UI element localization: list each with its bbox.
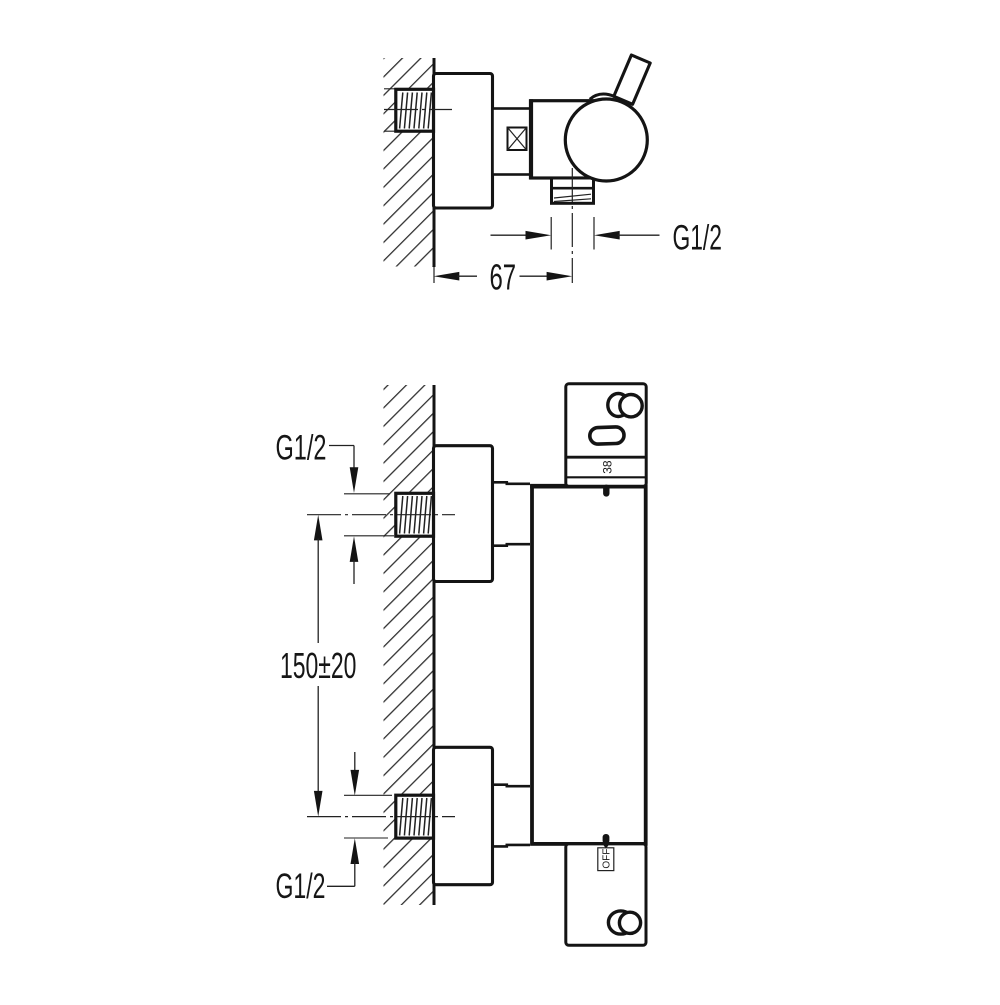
svg-text:G1/2: G1/2 <box>276 867 326 906</box>
temperature knob grip pill <box>590 427 625 445</box>
svg-text:G1/2: G1/2 <box>673 219 722 258</box>
volume index pin <box>603 834 610 849</box>
wall hatching (bottom view) <box>384 385 434 905</box>
volume knob grip circles <box>608 911 633 934</box>
knob band lines with 38 stop <box>566 456 646 459</box>
wall face line (top view) <box>433 58 436 267</box>
lower threaded wall inlet <box>396 795 434 838</box>
volume knob (bottom of bar) <box>566 844 646 945</box>
wall hatching (top view) <box>384 58 434 267</box>
inlet thread extension stubs <box>384 88 397 90</box>
threaded wall inlet (top view) <box>396 89 434 131</box>
dimension G1/2 (upper inlet) <box>276 429 395 584</box>
upper mounting escutcheon <box>434 446 493 582</box>
svg-text:G1/2: G1/2 <box>276 429 327 468</box>
temperature index pin <box>603 485 609 497</box>
shower outlet nipple (top view) <box>552 178 594 203</box>
wall face line (bottom view) <box>433 385 436 905</box>
lower inlet centre line <box>307 816 455 818</box>
dimension G1/2 (lower inlet) <box>276 752 393 906</box>
upper threaded wall inlet <box>396 493 434 536</box>
wall-mount escutcheon block (top view) <box>434 74 493 209</box>
temperature knob (top of bar) <box>566 384 646 486</box>
OFF label box (rotated text) <box>598 848 614 871</box>
connector neck between escutcheon and valve body <box>493 109 532 175</box>
upper connector between escutcheon and body <box>493 482 531 545</box>
inlet centre line (top view) <box>384 109 452 111</box>
lower connector between escutcheon and body <box>493 785 531 847</box>
svg-text:38: 38 <box>600 460 614 474</box>
wall face thin extension to 67-dim <box>433 267 435 283</box>
dimension 150±20 <box>280 515 356 817</box>
handle cap arc <box>590 94 615 99</box>
svg-text:150±20: 150±20 <box>280 647 356 686</box>
valve body (top view) <box>531 101 595 178</box>
crossed square (valve seat symbol) <box>508 128 527 151</box>
lever handle (top view) <box>614 55 650 104</box>
svg-text:67: 67 <box>490 258 517 298</box>
dimension G1/2 (top view outlet) <box>491 217 722 258</box>
dimension 67 (top view) <box>434 258 573 298</box>
temperature knob grip circles <box>608 394 629 417</box>
knob circle (valve cartridge cap) <box>565 99 647 181</box>
outlet centre line (top view) <box>571 168 573 283</box>
lower mounting escutcheon <box>434 747 493 884</box>
svg-text:OFF: OFF <box>601 849 612 869</box>
upper inlet centre line <box>307 514 455 516</box>
main mixer body (bottom view) <box>532 486 646 844</box>
